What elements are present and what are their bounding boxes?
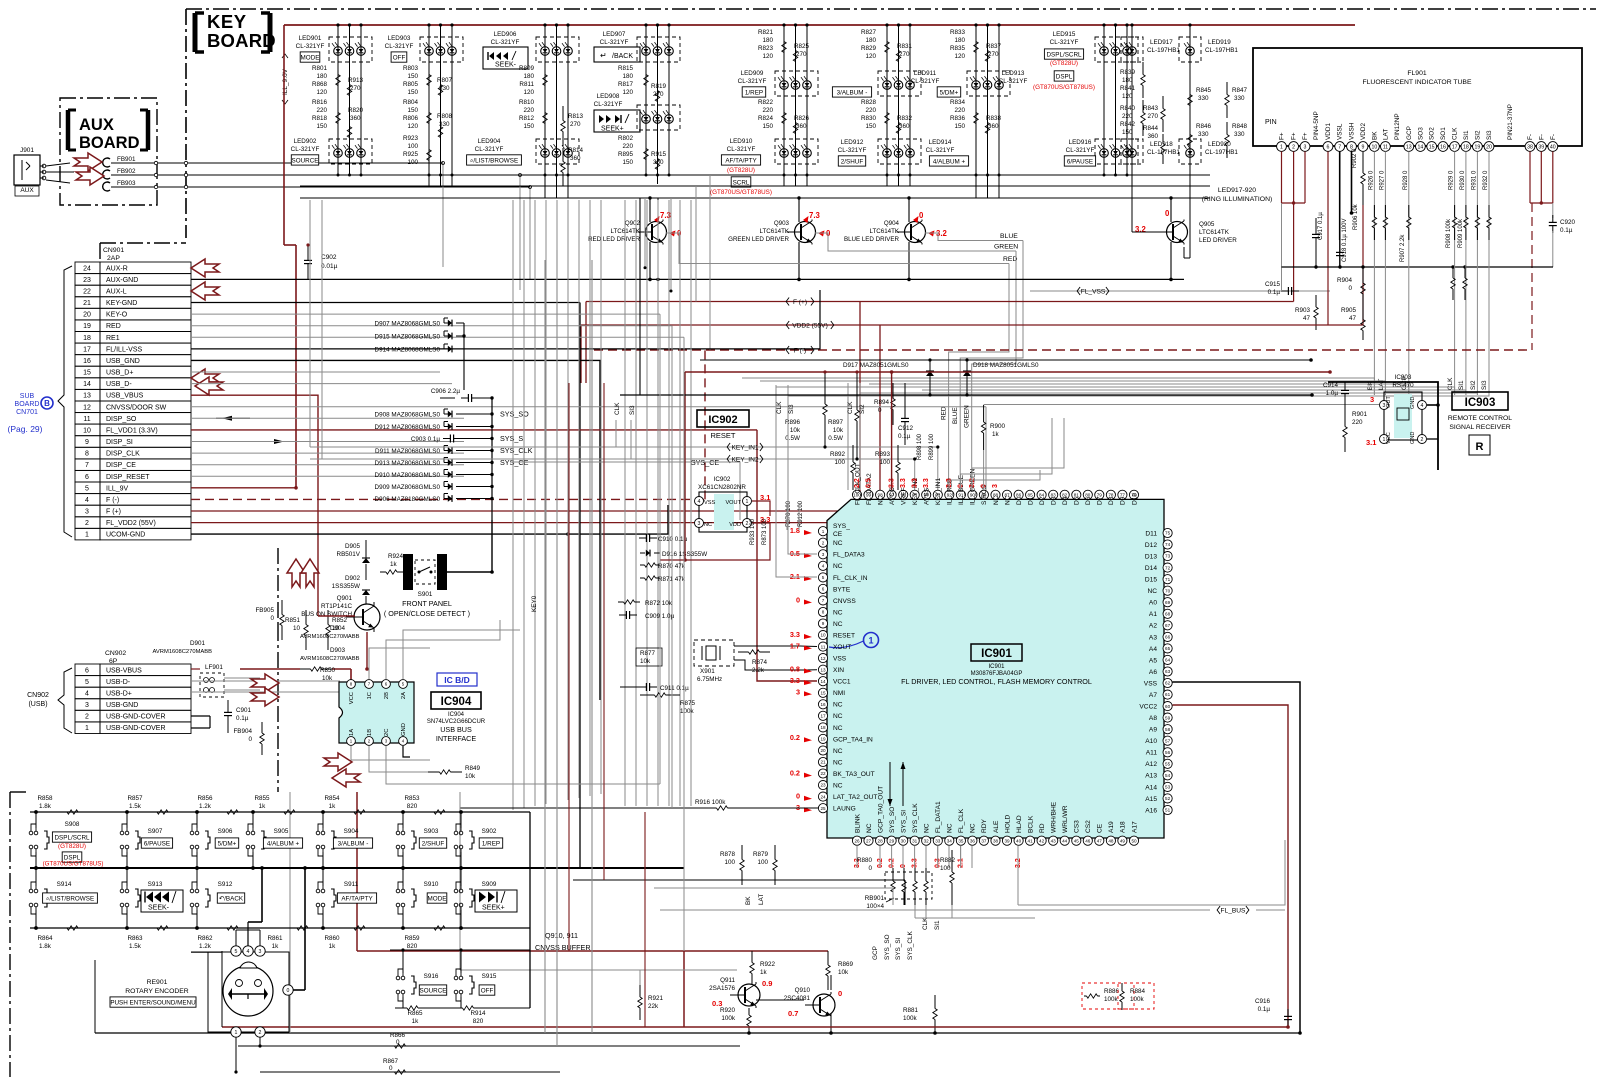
svg-text:FL_VDD2 (55V): FL_VDD2 (55V): [106, 520, 156, 527]
svg-text:12: 12: [83, 404, 91, 411]
wire usb gnd cover: [191, 951, 222, 953]
svg-text:0.5: 0.5: [866, 478, 873, 488]
svg-text:LED915: LED915: [1053, 31, 1076, 38]
svg-text:CL-321YF: CL-321YF: [475, 146, 504, 153]
wire aux vertical drops: [442, 163, 444, 267]
switch S913: [120, 889, 124, 893]
wire buffer bus lines: [573, 879, 905, 881]
svg-text:R825: R825: [794, 43, 810, 50]
svg-text:⌕/LIST/BROWSE: ⌕/LIST/BROWSE: [470, 157, 518, 164]
pin IC901-58 A9: [1163, 725, 1172, 734]
svg-text:ILL_BLUE: ILL_BLUE: [958, 474, 965, 505]
svg-text:0.1µ: 0.1µ: [1560, 227, 1573, 234]
pin FL901-39 F-: [1536, 142, 1546, 152]
svg-text:1.5k: 1.5k: [129, 943, 142, 950]
svg-text:FL_VSS: FL_VSS: [1081, 288, 1106, 295]
svg-text:19: 19: [820, 737, 826, 742]
IC902 XC61CN2802NR: [695, 476, 752, 532]
wire ILL_9V maroon: [191, 487, 296, 489]
svg-text:R827: R827: [861, 29, 877, 36]
svg-text:R819: R819: [651, 83, 667, 90]
svg-text:120: 120: [622, 89, 633, 96]
svg-text:VSSH: VSSH: [1349, 122, 1356, 140]
svg-text:61: 61: [1165, 692, 1171, 697]
svg-text:36: 36: [970, 838, 976, 843]
svg-text:C901: C901: [236, 707, 252, 714]
svg-text:R900: R900: [990, 423, 1006, 430]
svg-text:100: 100: [757, 859, 768, 866]
svg-text:R929 0: R929 0: [1449, 170, 1455, 190]
svg-text:0: 0: [248, 736, 252, 743]
svg-text:18: 18: [83, 335, 91, 342]
svg-text:D906 MAZ8180GMLS0: D906 MAZ8180GMLS0: [375, 496, 441, 503]
svg-text:23: 23: [820, 783, 826, 788]
svg-text:R915: R915: [651, 151, 667, 158]
svg-text:10k: 10k: [833, 427, 844, 434]
svg-text:CL-321YF: CL-321YF: [738, 78, 767, 85]
svg-text:330: 330: [439, 85, 450, 92]
svg-text:2: 2: [1292, 144, 1295, 150]
svg-text:FL901: FL901: [1407, 70, 1426, 77]
pin FL901-13 GCP: [1404, 142, 1414, 152]
svg-text:CNVSS/DOOR SW: CNVSS/DOOR SW: [106, 404, 167, 411]
svg-text:IC903: IC903: [1395, 374, 1412, 381]
svg-text:R884: R884: [1130, 988, 1146, 995]
wire Q905 base from ring leds: [1131, 170, 1133, 232]
svg-text:3.3: 3.3: [900, 478, 907, 488]
svg-text:NC: NC: [877, 495, 884, 505]
svg-text:(GT828U): (GT828U): [58, 843, 86, 850]
svg-text:2/SHUF: 2/SHUF: [841, 158, 864, 165]
svg-text:SEEK-: SEEK-: [148, 905, 170, 912]
svg-text:14: 14: [83, 381, 91, 388]
pin FL901-8 VSSH: [1347, 142, 1357, 152]
arrow CN901 USB_D+: [191, 369, 219, 387]
svg-text:SYS_SI: SYS_SI: [895, 937, 902, 960]
switch S910: [396, 889, 400, 893]
svg-text:SI3: SI3: [788, 404, 795, 414]
svg-text:(Pag. 29): (Pag. 29): [8, 424, 43, 434]
tag KEY_IN1: [560, 446, 938, 448]
svg-text:X901: X901: [700, 668, 715, 675]
svg-text:7: 7: [85, 462, 89, 469]
wire ILL stair to IC901: [960, 241, 1023, 491]
tag KEY_IN2: [560, 458, 915, 460]
svg-text:59: 59: [1165, 715, 1171, 720]
svg-text:820: 820: [473, 1018, 484, 1025]
svg-text:16: 16: [1440, 144, 1446, 150]
svg-text:⌕/LIST/BROWSE: ⌕/LIST/BROWSE: [46, 895, 94, 902]
svg-text:S912: S912: [218, 881, 233, 888]
svg-text:FB901: FB901: [117, 156, 136, 163]
svg-text:R: R: [1476, 441, 1484, 453]
pin IC904-8 VCC: [347, 680, 356, 689]
pin IC901-34 NC: [945, 836, 954, 845]
svg-text:150: 150: [407, 89, 418, 96]
svg-text:R836: R836: [950, 115, 966, 122]
pin IC901-68 A1: [1163, 609, 1172, 618]
svg-text:LED DRIVER: LED DRIVER: [1199, 237, 1237, 244]
pin IC901-93 KEY_IN1: [933, 490, 942, 499]
svg-text:100×4: 100×4: [866, 903, 884, 910]
svg-text:SI2: SI2: [1474, 130, 1481, 140]
svg-text:CE: CE: [1097, 823, 1104, 833]
LED908 group CL-321YF: [637, 105, 680, 130]
wire usb to ic904: [191, 680, 340, 682]
svg-text:R861: R861: [267, 935, 283, 942]
svg-text:XIN: XIN: [833, 667, 844, 674]
pin IC901-25 LAUNG: [818, 804, 827, 813]
svg-text:1/REP: 1/REP: [482, 840, 500, 847]
svg-text:69: 69: [1165, 600, 1171, 605]
sub board boundary near CN902: [277, 548, 279, 625]
svg-text:37: 37: [981, 838, 987, 843]
svg-text:/BACK: /BACK: [612, 53, 633, 60]
svg-text:4/ALBUM +: 4/ALBUM +: [267, 840, 300, 847]
svg-text:C903 0.1µ: C903 0.1µ: [411, 436, 441, 443]
wire VCC2 maroon rail: [1173, 705, 1289, 1027]
svg-text:7: 7: [1338, 144, 1341, 150]
svg-text:FL/ILL-VSS: FL/ILL-VSS: [106, 346, 143, 353]
svg-text:↶/BACK: ↶/BACK: [219, 895, 244, 902]
svg-text:R855: R855: [254, 795, 270, 802]
svg-text:120: 120: [1122, 93, 1133, 100]
svg-text:1.8k: 1.8k: [39, 943, 52, 950]
pin FL901-7 VSSL: [1335, 142, 1345, 152]
pin IC901-64 A5: [1163, 655, 1172, 664]
wire USB_GND: [191, 360, 600, 700]
svg-text:6: 6: [1327, 144, 1330, 150]
svg-text:REMOTE CONTROL: REMOTE CONTROL: [1448, 415, 1512, 422]
svg-text:8: 8: [85, 451, 89, 458]
svg-text:30: 30: [901, 838, 907, 843]
svg-text:VDD2: VDD2: [1360, 123, 1367, 140]
svg-text:62: 62: [1165, 681, 1171, 686]
svg-text:A11: A11: [1146, 750, 1158, 757]
wire IC902 vout to reset: [752, 501, 770, 516]
svg-text:R931 0: R931 0: [1471, 170, 1477, 190]
pin IC901-9 NC: [818, 619, 827, 628]
svg-text:B: B: [44, 399, 50, 408]
key matrix row line 3: [300, 197, 1210, 199]
pin IC901-6 BYTE: [818, 584, 827, 593]
svg-text:21: 21: [820, 760, 826, 765]
pin FL901-16 SO1: [1438, 142, 1448, 152]
IC903 label bold: [1452, 392, 1508, 410]
pin IC901-21 NC: [818, 757, 827, 766]
switch S905: [246, 831, 250, 835]
svg-text:Q903: Q903: [774, 220, 790, 227]
svg-text:64: 64: [1165, 658, 1171, 663]
svg-text:R847: R847: [1232, 87, 1248, 94]
svg-text:R850: R850: [320, 667, 336, 674]
pin IC901-27 NC: [864, 836, 873, 845]
svg-text:1k: 1k: [329, 943, 337, 950]
svg-text:LED903: LED903: [388, 35, 411, 42]
svg-text:AUX: AUX: [20, 187, 34, 194]
pin IC901-76 D10: [1129, 490, 1138, 499]
svg-text:S903: S903: [424, 828, 439, 835]
wire DISP_SO arrow: [216, 417, 250, 419]
svg-text:18: 18: [1463, 144, 1469, 150]
svg-text:PIN12NP: PIN12NP: [1394, 113, 1401, 140]
svg-text:100: 100: [724, 859, 735, 866]
pin IC901-91 ILL_BLUE: [956, 490, 965, 499]
svg-text:NC: NC: [833, 609, 843, 616]
svg-text:120: 120: [762, 53, 773, 60]
svg-text:VCC1: VCC1: [833, 679, 851, 686]
svg-text:9: 9: [85, 439, 89, 446]
svg-text:R841: R841: [1120, 85, 1136, 92]
svg-text:LED908: LED908: [597, 93, 620, 100]
LED903 group CL-321YF: [428, 25, 430, 186]
pin FL901-14 SO3: [1416, 142, 1426, 152]
svg-text:0: 0: [396, 1039, 400, 1046]
svg-text:74: 74: [1165, 542, 1171, 547]
svg-text:Q910: Q910: [795, 987, 811, 994]
svg-text:18: 18: [820, 725, 826, 730]
svg-text:USB_GND: USB_GND: [106, 358, 140, 365]
svg-text:D15: D15: [1145, 577, 1157, 584]
svg-text:R833: R833: [950, 29, 966, 36]
svg-text:IC902: IC902: [708, 414, 737, 426]
wire Q904 collector to band: [908, 198, 910, 222]
svg-text:41: 41: [1028, 838, 1034, 843]
svg-text:150: 150: [954, 123, 965, 130]
AUX BOARD title: [68, 110, 148, 152]
pin FL901-11 LAT: [1381, 142, 1391, 152]
svg-text:R821: R821: [758, 29, 774, 36]
svg-text:0: 0: [287, 988, 290, 994]
svg-text:330: 330: [1198, 131, 1209, 138]
LED908 SEEK+ key legend: [594, 110, 640, 132]
svg-text:D912 MAZ8068GMLS0: D912 MAZ8068GMLS0: [375, 424, 441, 431]
svg-text:39: 39: [1538, 144, 1544, 150]
wire IC903 gnd: [1427, 404, 1438, 406]
svg-text:5: 5: [822, 575, 825, 580]
pin IC901-67 A2: [1163, 621, 1172, 630]
svg-text:S911: S911: [344, 881, 359, 888]
svg-text:R928 0: R928 0: [1403, 170, 1409, 190]
svg-text:AF/TA/PTY: AF/TA/PTY: [341, 895, 373, 902]
wire F+ pins to rail: [1281, 151, 1283, 203]
svg-text:DISP_CLK: DISP_CLK: [106, 451, 140, 458]
svg-text:220: 220: [954, 107, 965, 114]
svg-text:4: 4: [822, 564, 825, 569]
svg-text:63: 63: [1165, 669, 1171, 674]
svg-text:R856: R856: [197, 795, 213, 802]
wire USB_VBUS maroon: [191, 395, 318, 616]
wire DISP_CE: [191, 464, 464, 466]
net CLK SI3 risers: [615, 420, 617, 447]
svg-text:7.3: 7.3: [660, 211, 672, 220]
svg-text:220: 220: [1122, 113, 1133, 120]
svg-text:BUS ON SWITCH: BUS ON SWITCH: [301, 611, 352, 618]
svg-text:VDD2 (55V): VDD2 (55V): [792, 322, 828, 329]
svg-text:R831: R831: [897, 43, 913, 50]
svg-text:MODE: MODE: [301, 54, 320, 61]
svg-text:10k: 10k: [838, 969, 849, 976]
svg-text:12: 12: [820, 656, 826, 661]
svg-text:BK: BK: [1371, 131, 1378, 140]
svg-text:A4: A4: [1149, 646, 1157, 653]
svg-text:120: 120: [316, 89, 327, 96]
svg-text:270: 270: [1147, 113, 1158, 120]
pin IC901-11 XOUT: [818, 642, 827, 651]
svg-text:R893: R893: [875, 451, 891, 458]
svg-text:15: 15: [83, 370, 91, 377]
svg-text:R862: R862: [197, 935, 213, 942]
svg-text:D915 MAZ8068GMLS0: D915 MAZ8068GMLS0: [375, 334, 441, 341]
svg-text:LF901: LF901: [205, 664, 223, 671]
svg-text:GCP_TA4_IN: GCP_TA4_IN: [833, 736, 873, 743]
wire RED: [191, 325, 672, 327]
arrow usb pair: [251, 674, 279, 692]
svg-text:A8: A8: [1149, 715, 1157, 722]
wire center verticals bundle: [544, 260, 546, 1033]
wire left risers from band: [639, 198, 641, 395]
svg-text:AVRM1608C270MABB: AVRM1608C270MABB: [300, 656, 360, 662]
resistor network RB901 100x4 dashed: [885, 872, 932, 899]
svg-text:3.3: 3.3: [923, 478, 930, 488]
arrow CN901 AUX-L: [191, 282, 219, 300]
svg-text:51: 51: [1165, 808, 1171, 813]
pin IC901-37 RDY: [979, 836, 988, 845]
svg-text:BOARD: BOARD: [15, 401, 40, 408]
svg-text:220: 220: [316, 107, 327, 114]
pin IC901-41 BCLK: [1026, 836, 1035, 845]
svg-text:CLK: CLK: [1452, 127, 1459, 140]
svg-text:DISP_SO: DISP_SO: [106, 416, 137, 423]
svg-text:2: 2: [259, 1030, 262, 1036]
svg-text:58: 58: [1165, 727, 1171, 732]
svg-text:VCC: VCC: [349, 692, 355, 704]
svg-text:D6: D6: [1085, 496, 1092, 505]
svg-text:0: 0: [389, 1065, 393, 1072]
net ILL_9.0V rail: [284, 24, 1355, 26]
svg-text:USB-GND-COVER: USB-GND-COVER: [106, 725, 166, 732]
pin IC901-33 FL_DATA1: [933, 836, 942, 845]
svg-text:D917 MAZ8051GMLS0: D917 MAZ8051GMLS0: [843, 362, 909, 369]
svg-text:31: 31: [912, 838, 918, 843]
svg-text:4: 4: [85, 497, 89, 504]
svg-text:USB-D-: USB-D-: [106, 679, 131, 686]
wire bottom pins drops: [856, 845, 858, 868]
svg-text:FL_DATA3: FL_DATA3: [833, 552, 865, 559]
svg-text:KEY: KEY: [207, 11, 247, 32]
svg-text:R925: R925: [403, 151, 419, 158]
svg-text:52: 52: [1165, 796, 1171, 801]
pin IC901-55 A12: [1163, 759, 1172, 768]
svg-text:VCC: VCC: [1386, 432, 1392, 444]
switch S914: [29, 889, 33, 893]
svg-text:NC: NC: [924, 823, 931, 833]
svg-text:RE1: RE1: [106, 335, 120, 342]
wire usb vbus: [191, 668, 200, 670]
pin IC904-2 1B: [365, 737, 374, 746]
svg-text:VSS: VSS: [833, 656, 847, 663]
svg-text:A18: A18: [1120, 821, 1127, 833]
svg-text:180: 180: [865, 37, 876, 44]
svg-text:C917 0.1µ: C917 0.1µ: [1318, 212, 1324, 240]
svg-text:SI1: SI1: [1458, 380, 1465, 390]
svg-text:72: 72: [1165, 565, 1171, 570]
svg-text:23: 23: [83, 277, 91, 284]
pin FL901-9 VDD2: [1358, 142, 1368, 152]
pin IC901-61 A7: [1163, 690, 1172, 699]
svg-text:R820: R820: [348, 107, 364, 114]
svg-text:10k: 10k: [322, 675, 333, 682]
svg-text:A7: A7: [1149, 692, 1157, 699]
pin FL901-19 SI2: [1473, 142, 1483, 152]
svg-text:150: 150: [762, 123, 773, 130]
pin IC901-65 A4: [1163, 644, 1172, 653]
svg-text:LED917-920: LED917-920: [1218, 187, 1256, 194]
svg-text:SI2: SI2: [1470, 380, 1477, 390]
svg-text:CL-321YF: CL-321YF: [1050, 39, 1079, 46]
svg-text:R813: R813: [568, 113, 584, 120]
svg-text:2: 2: [85, 520, 89, 527]
pin IC901-99 FL_DATA2: [864, 490, 873, 499]
svg-text:1k: 1k: [272, 943, 280, 950]
svg-text:22k: 22k: [648, 1003, 659, 1010]
svg-text:SI1: SI1: [934, 920, 941, 930]
wire F- pins to rail: [1529, 151, 1531, 203]
svg-text:A19: A19: [1108, 821, 1115, 833]
pin IC901-83 D3: [1049, 490, 1058, 499]
pin IC901-40 HLAD: [1014, 836, 1023, 845]
svg-text:330: 330: [1198, 95, 1209, 102]
svg-text:27: 27: [866, 838, 872, 843]
svg-text:A0: A0: [1149, 600, 1157, 607]
pin IC901-1 SYS_CE: [818, 527, 827, 536]
svg-text:D3: D3: [1051, 496, 1058, 505]
wire q921 bottom verticals: [221, 951, 223, 1027]
pin IC901-63 A6: [1163, 667, 1172, 676]
pin IC901-20 NC: [818, 746, 827, 755]
svg-text:20: 20: [83, 312, 91, 319]
pin IC901-48 A19: [1106, 836, 1115, 845]
svg-text:F+: F+: [1291, 132, 1298, 140]
pin IC901-32 NC: [922, 836, 931, 845]
svg-text:SO1: SO1: [1440, 127, 1447, 140]
svg-text:220: 220: [622, 143, 633, 150]
svg-text:CL-321YF: CL-321YF: [999, 78, 1028, 85]
net CLK SI2 risers right: [847, 383, 849, 490]
KEY BOARD title: [195, 11, 276, 52]
svg-text:R814: R814: [568, 147, 584, 154]
svg-text:R848: R848: [1232, 123, 1248, 130]
svg-text:10k: 10k: [640, 658, 651, 665]
svg-text:8: 8: [822, 610, 825, 615]
wire CNVSS/DOOR SW: [191, 406, 986, 408]
wire q911 base left: [639, 970, 641, 985]
svg-text:13: 13: [83, 393, 91, 400]
svg-text:NC: NC: [833, 713, 843, 720]
svg-text:F+: F+: [1302, 132, 1309, 140]
svg-text:S905: S905: [274, 828, 289, 835]
svg-text:20: 20: [1486, 144, 1492, 150]
svg-text:0.01µ: 0.01µ: [321, 263, 338, 270]
wire BK LAT drops: [1373, 151, 1375, 395]
svg-text:KEY-O: KEY-O: [106, 312, 128, 319]
svg-text:R909 100k: R909 100k: [1458, 218, 1464, 248]
svg-text:1.8k: 1.8k: [39, 803, 52, 810]
svg-text:R901: R901: [1352, 411, 1368, 418]
svg-text:C920: C920: [1560, 219, 1576, 226]
pin IC901-90 ILL_GREEN: [968, 490, 977, 499]
svg-text:1/REP: 1/REP: [745, 89, 763, 96]
